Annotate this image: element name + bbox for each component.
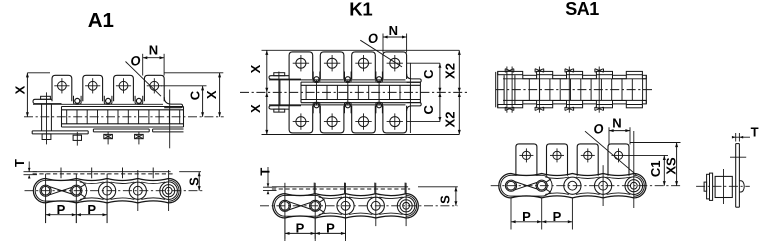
K1 pin1 caps (274, 73, 285, 76)
svg-text:C1: C1 (648, 160, 663, 177)
SA1 plan view center line (495, 89, 653, 91)
A1 side view center line (24, 116, 224, 118)
K1 foot under-lines (269, 79, 406, 81)
K1 extension line top (262, 49, 460, 51)
K1 extension lines hole level right (407, 62, 440, 64)
svg-text:SA1: SA1 (565, 0, 599, 19)
end view inner plate (710, 173, 713, 200)
chain silhouette side view (273, 194, 419, 218)
K1 dimension X left upper (266, 50, 268, 92)
svg-text:P: P (326, 221, 335, 236)
connecting link spring clip (275, 195, 326, 216)
SA1 plan left end bushing (503, 75, 505, 104)
K1 bottom pin center lines (284, 183, 286, 239)
svg-text:P: P (57, 202, 66, 217)
end view roller (715, 176, 732, 197)
svg-text:A1: A1 (88, 9, 114, 32)
svg-text:N: N (149, 42, 158, 57)
SA1 plan roller band lines (503, 78, 646, 80)
SA1 dimension C1 (663, 155, 665, 185)
K1 hole diameter leader O (360, 40, 402, 67)
end view roller center line (723, 169, 725, 204)
end view attachment plate (735, 144, 737, 208)
SA1 extension line hole level right (626, 154, 669, 156)
svg-text:C: C (421, 69, 436, 79)
K1 dimension N line (383, 36, 407, 38)
end view attachment hole line (730, 156, 746, 158)
A1 outer plate bottom bars (32, 130, 88, 132)
pin holes (281, 202, 290, 211)
A1 extension line top right (164, 72, 223, 74)
end view dimension T line (733, 136, 750, 138)
K1 pin center lines (278, 72, 280, 113)
dimension P extension lines (284, 219, 286, 241)
A1 dimension C right (202, 86, 204, 117)
dimension P extension lines (45, 204, 47, 224)
K1 dimension X left lower (266, 92, 268, 134)
K1 dimension C upper (439, 63, 441, 92)
K1 bottom attachment tabs (289, 106, 313, 133)
connecting link spring clip (35, 180, 87, 201)
K1 tab4 feet right (407, 74, 422, 83)
wire roller division lines (305, 85, 307, 99)
A1 pin center lines (46, 92, 48, 144)
SA1 plan right end edge (645, 75, 647, 103)
hidden edge dashed (33, 173, 173, 175)
SA1 extension line tab top right (630, 142, 681, 144)
SA1 side view center line (491, 185, 681, 187)
A1 dimension X left (26, 73, 28, 117)
A1 dimension N line (143, 57, 164, 59)
A1 dimension X left extension (27, 72, 50, 74)
dimension line P P (511, 221, 572, 223)
svg-text:X: X (13, 85, 28, 94)
A1 attachment tabs with holes (52, 75, 72, 101)
dimension line P P (46, 214, 108, 216)
K1 extension line bottom (262, 134, 460, 136)
SA1 plan roller division lines (528, 79, 530, 101)
svg-text:K1: K1 (349, 0, 372, 20)
A1 pin end caps (42, 134, 51, 140)
svg-text:T: T (12, 159, 27, 167)
svg-text:S: S (437, 195, 452, 204)
SA1 hole diameter leader O (585, 131, 636, 175)
pin holes (41, 186, 50, 195)
svg-text:T: T (257, 168, 272, 176)
end view outer plate (707, 174, 710, 199)
chain silhouette side view (499, 174, 646, 198)
A1 pin1 cap (41, 96, 51, 99)
SA1 plan left end edge (495, 72, 497, 107)
SA1 plan plate bars bottom (498, 105, 523, 108)
A1 foot curls between tabs (73, 96, 75, 103)
A1 tab4 right foot (164, 97, 182, 108)
SA1 dimension N extension lines (608, 127, 610, 144)
dimension P extension lines (510, 199, 512, 230)
A1 bottom view center line (25, 190, 204, 192)
SA1 end view center line (696, 185, 750, 187)
rollers (564, 177, 581, 194)
attachment hole ticks (60, 168, 62, 179)
A1 bottom pin center lines (45, 174, 47, 223)
SA1 dimension XS (676, 143, 678, 186)
svg-text:X2: X2 (442, 112, 457, 128)
connecting link spring clip (501, 175, 553, 196)
wire chain band bars (301, 81, 420, 83)
svg-text:X2: X2 (442, 63, 457, 79)
end view dimension T extension lines (735, 133, 737, 142)
K1 dimension C lower (439, 92, 441, 121)
A1 dimension S extension (179, 171, 201, 173)
K1 foot curls top (312, 72, 314, 82)
SA1 dimension N line (609, 130, 630, 132)
svg-text:XS: XS (664, 157, 679, 175)
K1 dimension X2 upper (458, 50, 460, 92)
K1 dimension T extension lines (267, 167, 269, 187)
svg-text:X: X (248, 104, 263, 113)
attachment hole ticks (313, 183, 315, 194)
svg-text:C: C (187, 90, 202, 100)
wire roller division lines (66, 110, 68, 124)
A1 foot under-lines (33, 103, 163, 105)
A1 dimension X right (219, 73, 221, 117)
SA1 plan pin heads top (504, 69, 506, 73)
rollers (99, 182, 116, 199)
A1 hole diameter leader O (126, 62, 162, 97)
K1 left end bushing (279, 79, 281, 106)
svg-text:S: S (187, 177, 202, 186)
svg-text:X: X (204, 90, 219, 99)
A1 dimension N extension lines (142, 54, 144, 76)
dimension line P P (285, 232, 346, 234)
rollers (337, 197, 354, 214)
svg-text:N: N (389, 23, 398, 38)
SA1 plan pins (538, 67, 540, 113)
A1 dimension T extension lines (28, 162, 30, 172)
end view pin right head (739, 181, 744, 192)
A1 dimension S (198, 172, 200, 191)
SA1 straight attachment tabs (516, 144, 537, 176)
svg-text:P: P (87, 202, 96, 217)
attachment strip edge-on (272, 186, 408, 188)
A1 tab1 left foot (33, 99, 62, 103)
svg-text:P: P (553, 209, 562, 224)
svg-text:X: X (248, 64, 263, 73)
svg-text:P: P (522, 209, 531, 224)
end view pin left end (704, 182, 707, 191)
K1 dimension X2 lower (458, 92, 460, 134)
wire chain band bars (62, 106, 184, 108)
K1 dimension S (455, 187, 457, 206)
K1 side view center line (240, 91, 469, 93)
chain silhouette side view (33, 179, 180, 203)
svg-text:N: N (612, 116, 621, 131)
svg-text:C: C (421, 104, 436, 114)
K1 foot curls bottom (312, 104, 314, 114)
A1 left end bushing (41, 104, 43, 131)
pin holes (507, 181, 516, 190)
SA1 plan pin heads bottom (504, 107, 506, 111)
SA1 side pin center lines (602, 165, 604, 206)
hidden edge dashed (272, 188, 410, 190)
svg-text:T: T (751, 124, 759, 139)
K1 dimension S extension (418, 186, 458, 188)
K1 top attachment tabs (289, 52, 313, 79)
K1 tab1 feet left (269, 76, 301, 79)
K1 bottom view center line (260, 205, 458, 207)
svg-text:P: P (296, 221, 305, 236)
attachment strip edge-on (33, 171, 171, 173)
SA1 plan plate bars top (498, 71, 523, 74)
A1 extension line hole level (161, 85, 207, 87)
K1 dimension N extension lines (382, 34, 384, 53)
